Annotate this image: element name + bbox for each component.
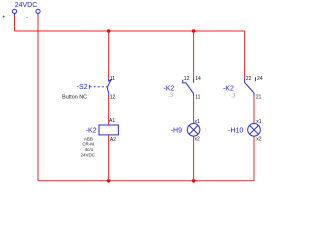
wire from + terminal down [14,16,16,31]
lamp H9 symbol [187,124,200,137]
svg-text:24: 24 [257,76,263,82]
wire from - terminal down to bottom rail [37,16,39,181]
relay contact K2b (changeover, lamp on 21/22 path) [245,77,256,97]
wire lamp H9 to bottom rail [193,136,195,181]
svg-text:24VDC: 24VDC [81,153,96,158]
S2 button actuator bar [88,85,90,89]
terminal - pin stub [37,13,39,15]
svg-text:Button NC: Button NC [62,95,87,101]
junction dot top rail / K2 contact branch [192,29,196,33]
wire coil A2 to bottom rail [108,135,110,181]
svg-text:x1: x1 [195,119,201,125]
svg-text:ABB: ABB [84,136,93,141]
svg-text:x2: x2 [256,137,262,143]
relay contact K2a (changeover, lamp on 14/11 path) [183,78,194,96]
svg-text:.3: .3 [168,92,174,99]
wire lamp H10 to bottom rail [253,136,255,181]
terminal circle minus [36,9,40,13]
svg-text:x1: x1 [256,119,262,125]
wire rail corner to K2 contact b pin 22 [244,31,246,78]
svg-text:11: 11 [110,76,115,82]
relay coil K2 rectangle [99,125,118,135]
svg-text:CR-M: CR-M [82,142,94,147]
wire K2a pin 11 to lamp H9 [193,96,195,123]
svg-text:x2: x2 [195,137,201,143]
wire rail to K2 contact a pin 14 [193,31,195,78]
svg-text:-K2: -K2 [86,127,97,134]
pushbutton S2 NC contact symbol [107,78,111,96]
svg-text:11: 11 [195,95,200,101]
S2 actuator dashed link [89,86,107,88]
junction dot bottom rail / H9 branch [192,179,196,183]
svg-text:24VDC: 24VDC [15,2,38,9]
svg-text:-S2: -S2 [77,84,88,91]
wire S2 pin 12 to coil A1 [108,96,110,125]
svg-text:21: 21 [256,95,262,101]
svg-text:+: + [2,15,5,21]
terminal circle plus [12,9,16,13]
svg-text:.3: .3 [230,92,236,99]
svg-text:12: 12 [110,95,116,101]
svg-text:A1: A1 [109,118,115,124]
junction dot bottom rail / coil branch [107,179,111,183]
svg-text:-H10: -H10 [228,128,243,135]
wire K2b pin 21 to lamp H10 [253,97,255,124]
svg-text:22: 22 [246,76,252,82]
svg-text:14: 14 [195,76,201,82]
lamp H10 symbol [248,124,261,137]
svg-text:4c/o: 4c/o [85,147,94,152]
svg-text:-H9: -H9 [171,128,182,135]
svg-text:12: 12 [184,76,190,82]
svg-text:A2: A2 [110,137,116,143]
junction dot top rail / S2 branch [107,29,111,33]
terminal + pin stub [14,13,16,15]
svg-text:-: - [26,15,28,21]
wire top rail [15,30,245,32]
wire rail to S2 pin 11 [108,31,110,78]
wire bottom rail [38,180,254,182]
